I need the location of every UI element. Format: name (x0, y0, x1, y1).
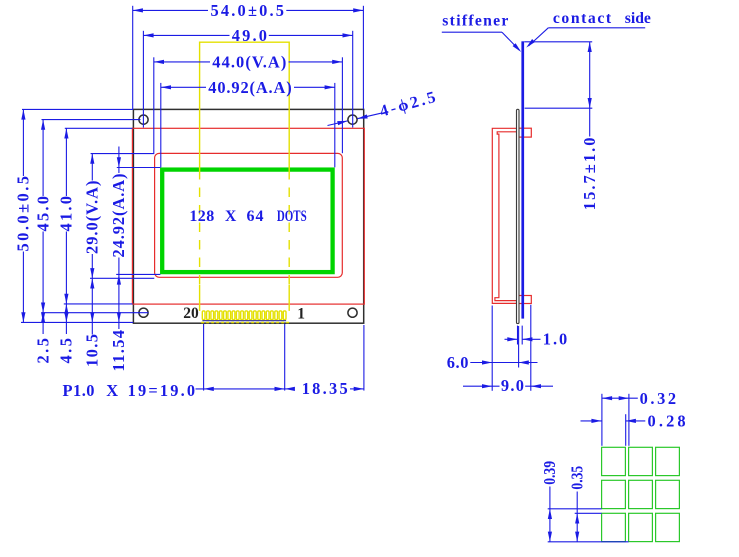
svg-text:10.5: 10.5 (83, 334, 102, 367)
svg-text:64: 64 (247, 208, 264, 225)
dimension P1.0 X 19=19.0 (63, 324, 285, 400)
mounting hole top-left (139, 115, 148, 124)
side view flex contact bar (521, 41, 524, 318)
svg-text:11.54: 11.54 (109, 330, 128, 372)
svg-text:DOTS: DOTS (277, 208, 307, 225)
dimension 44.0(V.A) (154, 52, 343, 153)
dimension 9.0 (463, 305, 553, 395)
svg-text:54.0±0.5: 54.0±0.5 (211, 1, 285, 20)
dimension 0.32 (602, 389, 676, 446)
dimension 0.28 (581, 411, 686, 445)
svg-text:1.0: 1.0 (543, 330, 567, 349)
side view bezel profile (492, 128, 518, 303)
dimension 40.92(A.A) (161, 78, 335, 168)
dimension 1.0 (505, 326, 568, 349)
svg-text:40.92(A.A): 40.92(A.A) (208, 78, 291, 97)
svg-text:0.39: 0.39 (540, 461, 559, 485)
svg-text:6.0: 6.0 (447, 353, 469, 372)
svg-text:128: 128 (189, 208, 214, 225)
mounting hole bottom-left (139, 308, 148, 317)
svg-text:49.0: 49.0 (232, 26, 267, 45)
svg-text:41.0: 41.0 (57, 196, 76, 232)
dimension 29.0(V.A) (83, 154, 155, 279)
dot matrix detail grid (602, 447, 680, 541)
dimension 24.92(A.A) (109, 147, 160, 330)
dimension 54.0±0.5 (133, 1, 364, 109)
dimension 0.35 (568, 466, 602, 542)
side view glass stack (517, 109, 520, 323)
hole callout 4-phi2.5 (328, 87, 438, 125)
connector pins (201, 311, 289, 323)
svg-text:X: X (225, 208, 237, 225)
dimension 2.5 (33, 312, 52, 363)
dimension 18.35 (285, 325, 364, 398)
dimension 45.0 (33, 120, 148, 313)
mounting hole bottom-right (348, 308, 357, 317)
dimension 11.54 (109, 312, 128, 371)
svg-text:0.28: 0.28 (648, 411, 686, 430)
svg-text:9.0: 9.0 (501, 376, 524, 395)
dimension 41.0 (57, 128, 133, 304)
svg-text:20: 20 (183, 305, 199, 322)
svg-text:45.0: 45.0 (33, 196, 52, 232)
module outline (133, 109, 363, 323)
label 128 X 64 DOTS (189, 208, 306, 225)
dimension 49.0 (143, 26, 352, 128)
bezel window viewing area front (155, 153, 343, 277)
active area border (162, 170, 332, 273)
label contact side (525, 10, 651, 49)
svg-text:29.0(V.A): 29.0(V.A) (83, 181, 102, 255)
dimension 10.5 (83, 278, 102, 367)
svg-text:44.0(V.A): 44.0(V.A) (212, 52, 286, 71)
svg-text:side: side (625, 10, 651, 27)
label stiffener (442, 13, 523, 54)
svg-text:2.5: 2.5 (33, 338, 52, 364)
side view bezel tab top (519, 128, 531, 137)
svg-text:stiffener: stiffener (442, 13, 508, 30)
svg-text:24.92(A.A): 24.92(A.A) (109, 174, 128, 258)
dimension 4.5 (57, 304, 76, 364)
svg-text:18.35: 18.35 (302, 379, 348, 398)
mounting hole top-right (348, 115, 357, 124)
svg-text:15.7±1.0: 15.7±1.0 (580, 138, 599, 211)
svg-text:X: X (106, 381, 118, 400)
svg-text:P1.0: P1.0 (63, 381, 95, 400)
dimension 0.39 (540, 461, 628, 542)
svg-text:0.32: 0.32 (640, 389, 677, 408)
dimension 6.0 (447, 326, 538, 372)
side view bezel tab bottom (519, 296, 531, 304)
svg-text:contact: contact (553, 10, 612, 27)
dimension 50.0±0.5 (14, 109, 134, 322)
dimension 15.7±1.0 (524, 42, 599, 210)
svg-text:50.0±0.5: 50.0±0.5 (14, 176, 33, 252)
svg-text:4.5: 4.5 (57, 338, 76, 364)
bezel outer outline front (132, 128, 364, 304)
backlight flex outline (200, 42, 290, 311)
svg-text:1: 1 (297, 305, 305, 322)
svg-text:0.35: 0.35 (568, 466, 587, 490)
